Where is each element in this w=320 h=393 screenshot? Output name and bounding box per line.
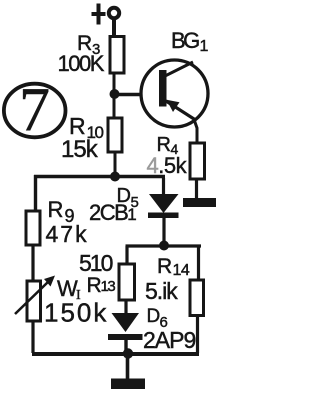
svg-text:7: 7	[19, 77, 50, 145]
svg-text:14: 14	[173, 262, 190, 279]
svg-text:15k: 15k	[61, 136, 99, 163]
svg-text:D: D	[147, 306, 161, 327]
svg-text:BG: BG	[171, 28, 199, 53]
svg-text:R: R	[48, 197, 64, 222]
svg-text:R: R	[87, 274, 102, 297]
svg-text:2AP9: 2AP9	[143, 327, 195, 353]
svg-text:13: 13	[101, 278, 116, 295]
svg-text:150k: 150k	[44, 298, 108, 328]
svg-text:R: R	[157, 255, 172, 278]
svg-text:1: 1	[200, 38, 209, 55]
svg-text:5.ik: 5.ik	[145, 278, 178, 304]
svg-text:100K: 100K	[58, 51, 105, 76]
svg-text:4.5k: 4.5k	[147, 153, 188, 178]
svg-text:47k: 47k	[46, 221, 89, 247]
svg-text:510: 510	[79, 250, 113, 276]
